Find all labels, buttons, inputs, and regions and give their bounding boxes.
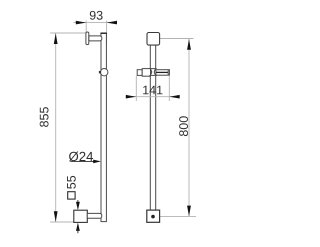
top clamp step (100, 33, 102, 36)
dim 800 arrow down (187, 206, 191, 217)
dim 141 line (128, 96, 180, 98)
bottom flange screw (151, 215, 155, 219)
dim 141 label (143, 86, 162, 95)
dim 93 extension line right (106, 21, 108, 44)
label D24 leader (71, 160, 100, 162)
dim 855 arrow up (54, 33, 58, 44)
dim 93 extension line left (85, 21, 87, 33)
holder right arm cap line (167, 70, 169, 76)
bar top clamp line (101, 32, 107, 34)
holder slider body on bar (150, 69, 156, 76)
holder right arm (156, 70, 170, 76)
slider knob nub (99, 71, 101, 74)
label square55 symbol (68, 192, 75, 199)
top bracket arm (89, 36, 102, 41)
dim 93 arrow right (107, 21, 117, 25)
bar (side view) (101, 33, 106, 221)
dim 141 arrow left (126, 95, 136, 99)
dim 800 line (188, 39, 190, 216)
dim 855 arrow down (54, 211, 58, 222)
dim 141 arrow right (169, 95, 179, 99)
dim 855 extension line top (50, 32, 87, 34)
dim 93 arrow left (76, 21, 86, 25)
bottom wall flange (side view) (74, 210, 88, 222)
holder cup large rect (142, 69, 150, 77)
label square55 text (67, 176, 76, 189)
label square55 arrow up (76, 223, 80, 231)
bar (front view) lower segment (149, 76, 151, 210)
label D24 text (69, 152, 93, 162)
bar (front view) upper segment (149, 45, 151, 69)
bottom bracket arm (87, 213, 102, 218)
label square55 arrow down (76, 202, 80, 210)
wall flange top (side view capsule) (86, 32, 89, 45)
dim 855 line (55, 33, 57, 222)
bottom flange (front view) (147, 210, 160, 222)
handset knob (front view) (147, 33, 160, 46)
holder cup outer small rect (137, 70, 142, 76)
dim 141 extension line left (135, 76, 137, 101)
dim 141 extension line right (168, 76, 170, 101)
dim 855 label (40, 107, 49, 127)
dim 800 label (179, 116, 188, 136)
dim 800 arrow up (187, 39, 191, 50)
holder right arm middle line (156, 71, 168, 73)
dim 93 label (90, 11, 103, 20)
dim 800 extension line top (153, 38, 193, 40)
dim 800 extension line bottom (160, 215, 196, 217)
dim 93 line (74, 22, 115, 24)
slider knob (side view) (101, 69, 108, 76)
dim 855 extension line bottom (50, 221, 74, 223)
label D24 arrow (93, 160, 101, 164)
